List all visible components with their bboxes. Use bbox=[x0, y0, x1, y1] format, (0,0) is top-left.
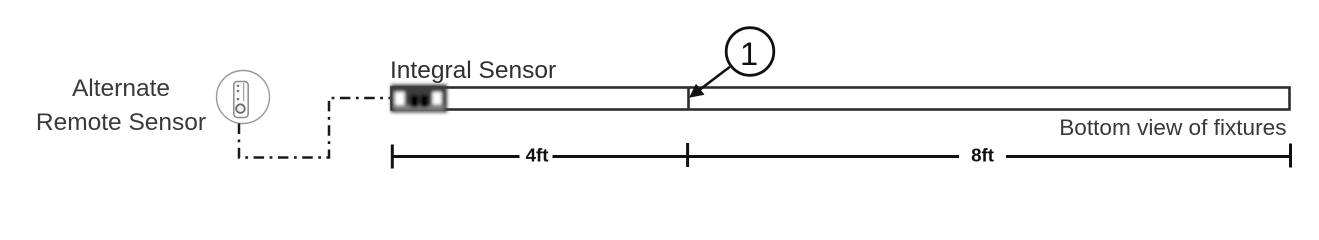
dimension tick middle bbox=[686, 143, 689, 167]
fixture divider between 4ft and 8ft bbox=[687, 88, 690, 110]
svg-text:1: 1 bbox=[740, 36, 758, 72]
dimension tick right bbox=[1289, 144, 1292, 168]
svg-text:Remote Sensor: Remote Sensor bbox=[36, 109, 206, 136]
dimension tick left bbox=[391, 145, 394, 169]
svg-text:4ft: 4ft bbox=[526, 145, 549, 166]
wire: dash-dot leader from remote sensor to fixture bbox=[239, 98, 390, 158]
remote sensor circle bbox=[217, 71, 270, 124]
svg-text:Integral Sensor: Integral Sensor bbox=[390, 57, 556, 84]
icon divider line bbox=[243, 83, 245, 101]
integral sensor block bbox=[391, 85, 447, 113]
svg-text:Bottom view of fixtures: Bottom view of fixtures bbox=[1059, 115, 1286, 140]
callout circle 1 bbox=[726, 28, 774, 76]
dimension line 8ft left segment bbox=[688, 155, 959, 158]
icon lens bbox=[236, 104, 245, 113]
dimension line 4ft right segment bbox=[553, 155, 688, 158]
callout leader line bbox=[697, 67, 730, 92]
dimension line 4ft left segment bbox=[392, 155, 519, 158]
icon indicator dots bbox=[237, 85, 240, 88]
svg-text:8ft: 8ft bbox=[971, 145, 994, 166]
remote sensor icon body bbox=[234, 82, 248, 118]
dimension line 8ft right segment bbox=[1006, 155, 1291, 158]
fixture bar (bottom view) bbox=[392, 88, 1290, 110]
svg-text:Alternate: Alternate bbox=[72, 75, 170, 102]
callout arrowhead bbox=[689, 84, 705, 98]
